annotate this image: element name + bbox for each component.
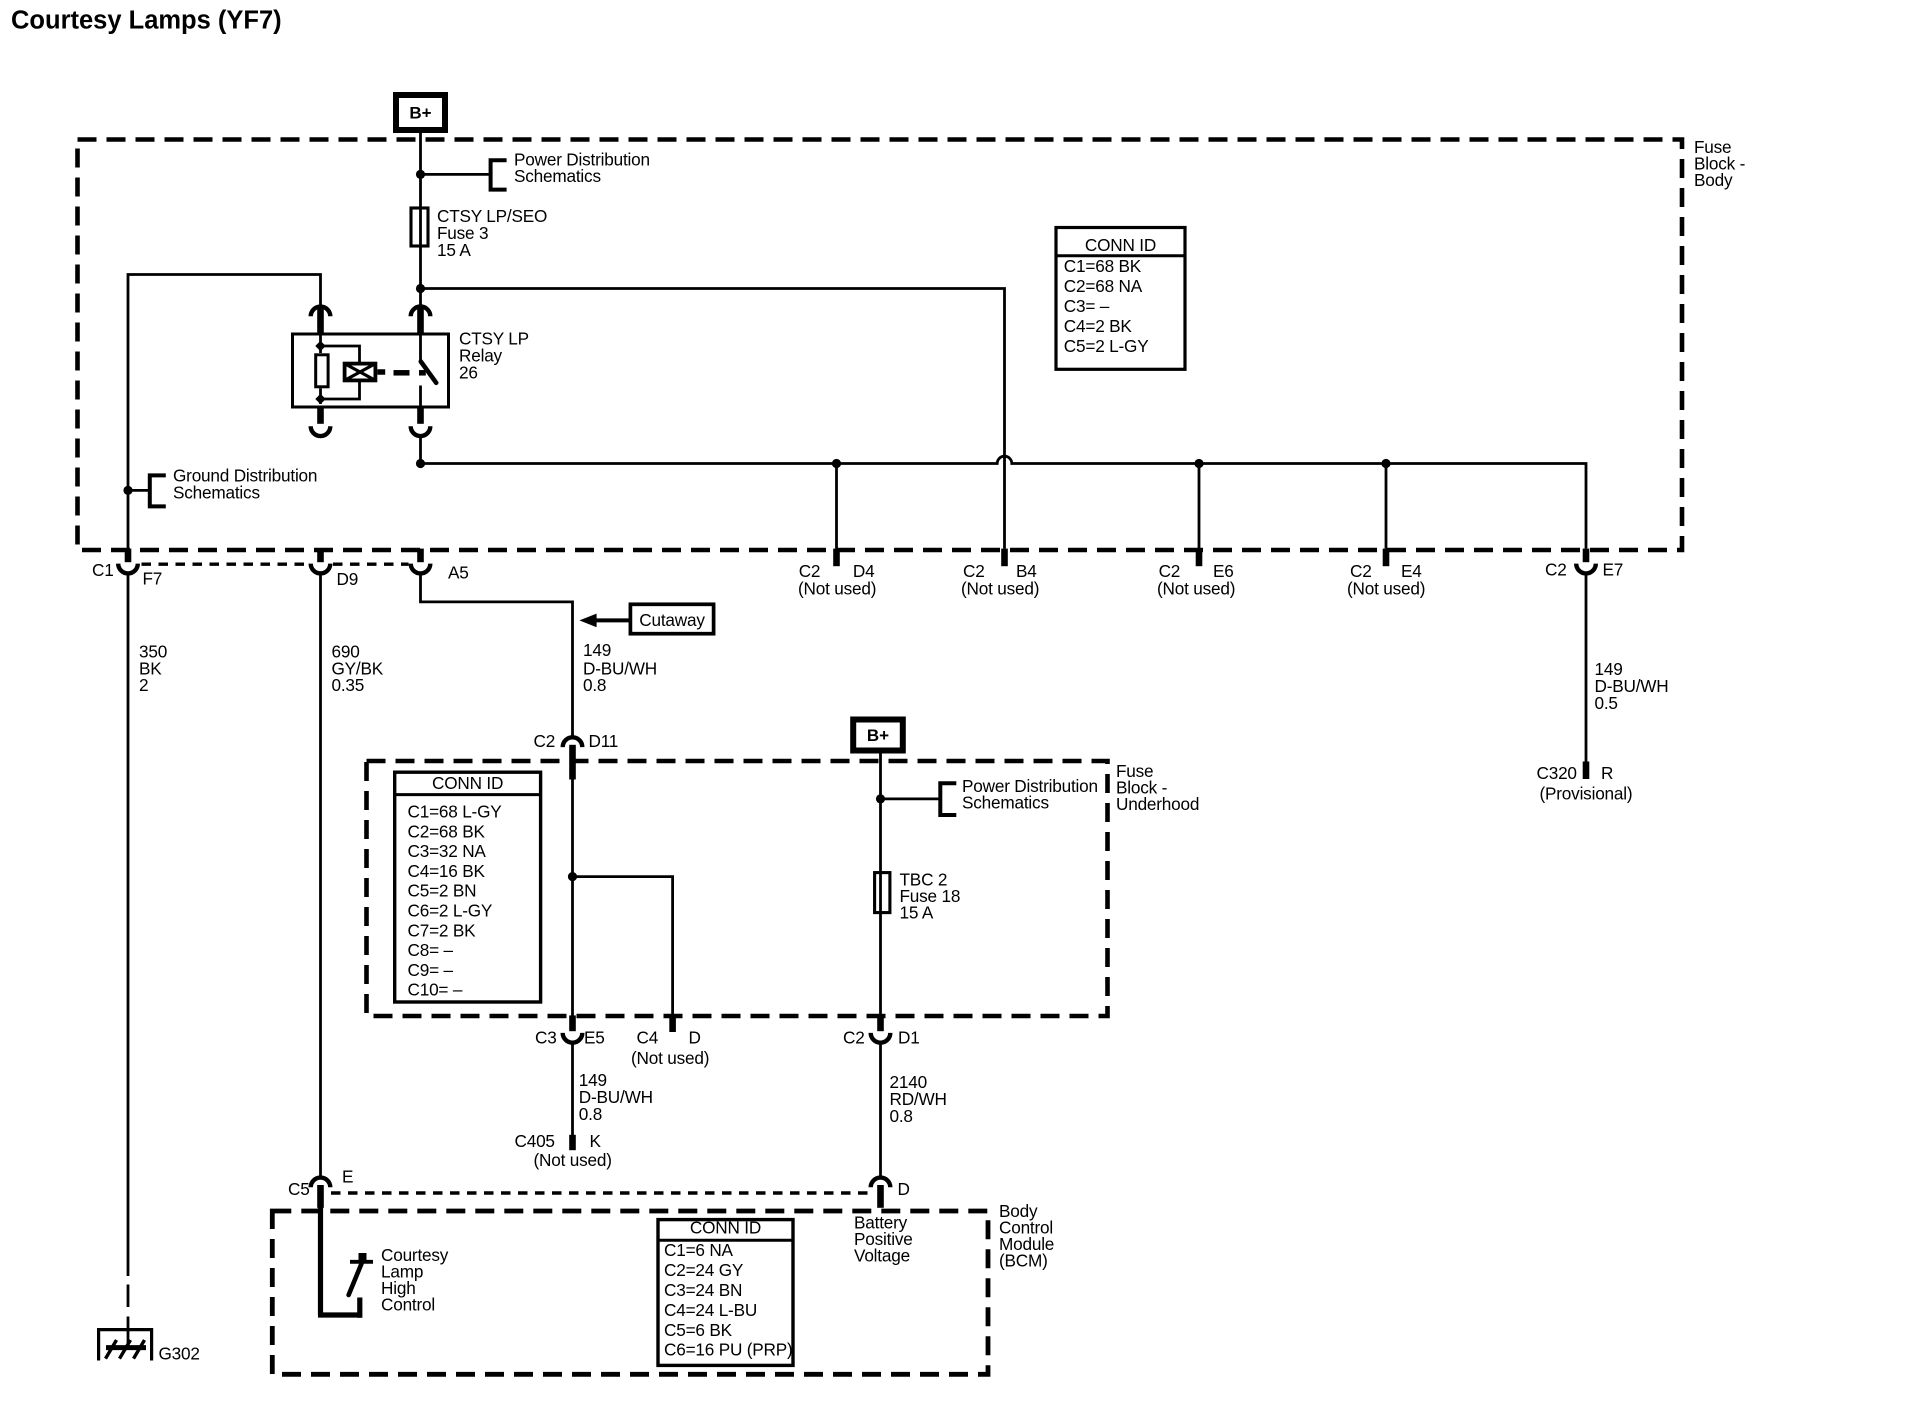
- wire break dash: [127, 1285, 130, 1308]
- svg-text:2: 2: [139, 675, 148, 695]
- wire into relay coil: [319, 333, 322, 353]
- svg-text:Control: Control: [381, 1295, 435, 1315]
- svg-text:(Not used): (Not used): [1347, 579, 1425, 599]
- svg-text:Cutaway: Cutaway: [639, 610, 705, 630]
- body control module boundary (dashed): [272, 1211, 988, 1374]
- cutaway box: [630, 604, 713, 633]
- svg-text:15 A: 15 A: [900, 903, 934, 923]
- svg-text:C405: C405: [515, 1131, 555, 1151]
- label C2 E7: [1545, 560, 1623, 580]
- node: branch to C4-D: [568, 872, 577, 881]
- svg-text:C5=2 L-GY: C5=2 L-GY: [1064, 336, 1149, 356]
- wire label 350 BK 2: [139, 642, 167, 696]
- wire relay switch to bus: [419, 436, 422, 464]
- svg-text:E: E: [342, 1167, 353, 1187]
- svg-text:(Provisional): (Provisional): [1540, 784, 1633, 804]
- svg-text:26: 26: [459, 363, 478, 383]
- svg-text:B+: B+: [867, 726, 889, 745]
- svg-text:C5: C5: [288, 1179, 310, 1199]
- wire label 149 D-BU/WH 0.8 (lower): [579, 1070, 653, 1124]
- connector C2 pin D11: [563, 737, 583, 779]
- switch fixed contact (bottom): [419, 386, 422, 409]
- fuse block - body boundary (dashed): [78, 140, 1683, 551]
- svg-text:C1=68 BK: C1=68 BK: [1064, 256, 1142, 276]
- svg-text:C3: C3: [535, 1027, 557, 1047]
- wire branch to C4 pin D: [573, 877, 673, 1016]
- wire B+ through TBC 2 fuse to D1: [879, 754, 882, 1016]
- svg-text:149: 149: [583, 640, 611, 660]
- wire E6 drop: [1198, 464, 1201, 549]
- connector row dotted link C5-D: [331, 1191, 869, 1194]
- label C2 D1: [843, 1027, 920, 1047]
- conn id table (fuse block body): [1056, 228, 1185, 370]
- svg-text:(Not used): (Not used): [1157, 579, 1235, 599]
- node: E6 tap: [1194, 459, 1203, 468]
- svg-text:Voltage: Voltage: [854, 1246, 910, 1266]
- connector C2 pin E4 stub (not used): [1383, 549, 1390, 567]
- label battery positive voltage: [854, 1213, 913, 1266]
- connector C5 pin E: [311, 1178, 331, 1208]
- svg-text:C4=24 L-BU: C4=24 L-BU: [664, 1300, 757, 1320]
- fuse block - body label: [1694, 137, 1745, 190]
- svg-text:C1: C1: [92, 560, 114, 580]
- mechanical link (dashed): [394, 370, 426, 376]
- switch fixed contact (top): [419, 334, 422, 362]
- svg-text:C1=6 NA: C1=6 NA: [664, 1240, 734, 1260]
- label C2 D11: [534, 731, 619, 751]
- svg-text:0.8: 0.8: [579, 1104, 602, 1124]
- wire B+ to CTSY LP/SEO fuse and relay: [419, 133, 422, 307]
- connector C405 pin K stub (not used): [569, 1135, 576, 1150]
- svg-text:A5: A5: [448, 563, 469, 583]
- ground G302: [99, 1330, 152, 1361]
- label C5 E: [288, 1167, 353, 1200]
- node: bus start junction: [416, 459, 425, 468]
- relay label: [459, 329, 529, 383]
- connector pin D (BCM): [871, 1178, 891, 1208]
- switch blade: [421, 362, 436, 383]
- power terminal B+ (body fuse block): [396, 95, 445, 130]
- svg-text:D: D: [689, 1027, 701, 1047]
- label C320 R (Provisional): [1537, 763, 1633, 804]
- conn id table (fuse block underhood): [395, 772, 541, 1002]
- svg-text:Underhood: Underhood: [1116, 794, 1199, 814]
- svg-text:C8= –: C8= –: [408, 940, 454, 960]
- svg-text:CONN ID: CONN ID: [690, 1218, 761, 1238]
- label C405 K not used: [515, 1131, 612, 1170]
- relay pin connector (coil bottom): [311, 409, 331, 437]
- svg-text:C4=16 BK: C4=16 BK: [408, 861, 486, 881]
- svg-text:0.35: 0.35: [332, 675, 365, 695]
- driver switch bar: [350, 1253, 373, 1262]
- label C2 E6 not used: [1157, 561, 1235, 599]
- node: ground distribution tap: [123, 486, 132, 495]
- label C4 D not used: [631, 1027, 709, 1068]
- svg-text:C2=68 BK: C2=68 BK: [408, 821, 486, 841]
- svg-text:F7: F7: [143, 569, 163, 589]
- svg-text:C2=24 GY: C2=24 GY: [664, 1260, 744, 1280]
- label C2 B4 not used: [961, 561, 1039, 599]
- svg-text:C5=6 BK: C5=6 BK: [664, 1320, 733, 1340]
- connector C1 pin F7: [118, 549, 138, 574]
- svg-text:(Not used): (Not used): [961, 579, 1039, 599]
- svg-text:C10= –: C10= –: [408, 980, 463, 1000]
- svg-text:CONN ID: CONN ID: [1085, 235, 1156, 255]
- svg-text:D: D: [898, 1179, 910, 1199]
- svg-text:E5: E5: [584, 1027, 605, 1047]
- svg-text:C4: C4: [637, 1027, 659, 1047]
- svg-text:B+: B+: [409, 104, 431, 123]
- wire 149 D-BU/WH 0.8 (A5 to D11): [421, 573, 573, 735]
- svg-text:15 A: 15 A: [437, 240, 471, 260]
- svg-text:(Not used): (Not used): [534, 1150, 612, 1170]
- svg-text:E7: E7: [1603, 560, 1624, 580]
- svg-text:C6=16 PU (PRP): C6=16 PU (PRP): [664, 1340, 793, 1360]
- body control module label: [999, 1201, 1054, 1271]
- connector C4 pin D stub (not used): [669, 1015, 676, 1032]
- node: fuse 3 output junction: [416, 284, 425, 293]
- connector C1 pin D9: [311, 549, 331, 574]
- svg-text:D11: D11: [589, 731, 619, 751]
- svg-text:0.8: 0.8: [890, 1106, 913, 1126]
- svg-text:Courtesy Lamps (YF7): Courtesy Lamps (YF7): [11, 7, 282, 35]
- power distribution schematics bracket (underhood): [940, 783, 956, 815]
- cutaway pointer arrow: [579, 614, 629, 628]
- node: power distribution tap: [416, 170, 425, 179]
- connector row dotted link D9-A5: [333, 563, 409, 566]
- fuse 3 label: [437, 206, 547, 260]
- wire D4 drop: [835, 464, 838, 549]
- svg-text:(BCM): (BCM): [999, 1251, 1048, 1271]
- courtesy lamp high control driver wire: [318, 1190, 360, 1318]
- wire 149 D-BU/WH 0.5 (E7 to C320): [1585, 573, 1588, 762]
- wire into ground: [127, 1317, 130, 1348]
- svg-text:C5=2 BN: C5=2 BN: [408, 881, 477, 901]
- conn id table (BCM): [658, 1218, 793, 1366]
- connector C2 pin E6 stub (not used): [1196, 549, 1203, 567]
- label C3 E5: [535, 1027, 605, 1047]
- connector C2 pin A5: [411, 549, 431, 574]
- fuse block - underhood label: [1116, 761, 1199, 814]
- svg-text:G302: G302: [159, 1344, 200, 1364]
- svg-text:C2: C2: [843, 1027, 865, 1047]
- svg-text:C3=32 NA: C3=32 NA: [408, 841, 487, 861]
- resistor (coil suppression): [316, 355, 328, 387]
- wire 149 D-BU/WH 0.8 (E5 to C405): [571, 1043, 574, 1135]
- svg-text:C3= –: C3= –: [1064, 296, 1110, 316]
- power terminal B+ (underhood fuse block): [853, 720, 903, 751]
- wire to power distribution reference (underhood): [881, 798, 941, 801]
- coil actuator tick: [377, 369, 385, 375]
- connector row dotted link C1-D9: [142, 563, 309, 566]
- fuse block - underhood boundary (dashed): [367, 761, 1108, 1016]
- relay pin connector (switch top): [411, 307, 431, 335]
- svg-text:C9= –: C9= –: [408, 960, 454, 980]
- svg-text:CONN ID: CONN ID: [432, 773, 503, 793]
- wire label 690 GY/BK 0.35: [332, 642, 384, 696]
- svg-text:D9: D9: [337, 569, 359, 589]
- svg-text:0.5: 0.5: [1595, 693, 1618, 713]
- svg-text:D1: D1: [898, 1027, 920, 1047]
- svg-text:C320: C320: [1537, 763, 1577, 783]
- wire 690 GY/BK 0.35 (D9 to C5): [319, 573, 322, 1175]
- fuse TBC 2 15 A: [875, 873, 890, 913]
- power distribution schematics bracket: [491, 160, 507, 189]
- ground distribution schematics bracket: [150, 475, 166, 506]
- wire 2140 RD/WH 0.8 (D1 to BCM D): [879, 1043, 882, 1176]
- connector pin labels row: [92, 560, 469, 589]
- connector C320 pin R stub: [1583, 762, 1590, 780]
- svg-text:C3=24 BN: C3=24 BN: [664, 1280, 742, 1300]
- ground distribution schematics label: [173, 466, 317, 503]
- svg-text:C2: C2: [1545, 560, 1567, 580]
- node: E4 tap: [1381, 459, 1390, 468]
- driver switch blade: [349, 1263, 362, 1295]
- wire junction to B4 connector drop: [421, 289, 1005, 549]
- wire resistor bottom: [319, 388, 322, 404]
- relay coil (solenoid box): [345, 364, 376, 381]
- node: D4 tap: [832, 459, 841, 468]
- svg-text:(Not used): (Not used): [631, 1048, 709, 1068]
- svg-text:C2: C2: [534, 731, 556, 751]
- svg-text:R: R: [1601, 763, 1613, 783]
- wire 350 BK 2 (F7 to G302): [127, 573, 130, 1276]
- bus wire with hop over B4 drop, to E7: [421, 456, 1587, 548]
- svg-text:Schematics: Schematics: [962, 793, 1049, 813]
- wire relay coil to F7 (ground side): [128, 275, 321, 549]
- connector C2 pin D1: [871, 1015, 891, 1042]
- coil bypass loop wire: [321, 346, 360, 399]
- wire to power distribution reference: [421, 173, 491, 176]
- wire label 2140 RD/WH 0.8: [890, 1072, 947, 1126]
- node: coil bottom junction: [315, 394, 325, 404]
- wire label 149 D-BU/WH 0.8: [583, 640, 657, 695]
- svg-text:C6=2 L-GY: C6=2 L-GY: [408, 901, 493, 921]
- wire to ground distribution reference: [128, 489, 150, 492]
- wire label 149 D-BU/WH 0.5: [1595, 659, 1669, 713]
- svg-text:(Not used): (Not used): [798, 579, 876, 599]
- label courtesy lamp high control: [381, 1245, 449, 1315]
- power distribution schematics label: [514, 150, 650, 187]
- svg-text:C4=2 BK: C4=2 BK: [1064, 316, 1133, 336]
- label C2 E4 not used: [1347, 561, 1425, 599]
- wire D11 into underhood block: [571, 779, 574, 1016]
- fuse TBC 2 label: [900, 870, 961, 923]
- relay pin connector (switch bottom): [411, 409, 431, 437]
- node: coil top junction: [315, 341, 325, 351]
- relay CTSY LP 26 outline: [293, 334, 449, 407]
- connector C3 pin E5: [563, 1015, 583, 1042]
- connector C2 pin E7: [1576, 549, 1596, 574]
- svg-text:C1=68 L-GY: C1=68 L-GY: [408, 802, 503, 822]
- svg-text:Schematics: Schematics: [173, 483, 260, 503]
- wire E4 drop: [1385, 464, 1388, 549]
- relay pin connector (coil top): [311, 307, 331, 335]
- svg-text:0.8: 0.8: [583, 675, 606, 695]
- fuse 3 CTSY LP/SEO 15 A: [411, 208, 428, 246]
- svg-text:C2=68 NA: C2=68 NA: [1064, 276, 1143, 296]
- power distribution schematics label (underhood): [962, 776, 1098, 813]
- svg-text:Body: Body: [1694, 170, 1733, 190]
- connector C2 pin B4 stub (not used): [1001, 549, 1008, 567]
- label C2 D4 not used: [798, 561, 876, 599]
- svg-text:K: K: [590, 1131, 602, 1151]
- node: power distribution tap (underhood): [876, 794, 885, 803]
- svg-text:Schematics: Schematics: [514, 166, 601, 186]
- connector C2 pin D4 stub (not used): [833, 549, 840, 567]
- svg-text:C7=2 BK: C7=2 BK: [408, 920, 477, 940]
